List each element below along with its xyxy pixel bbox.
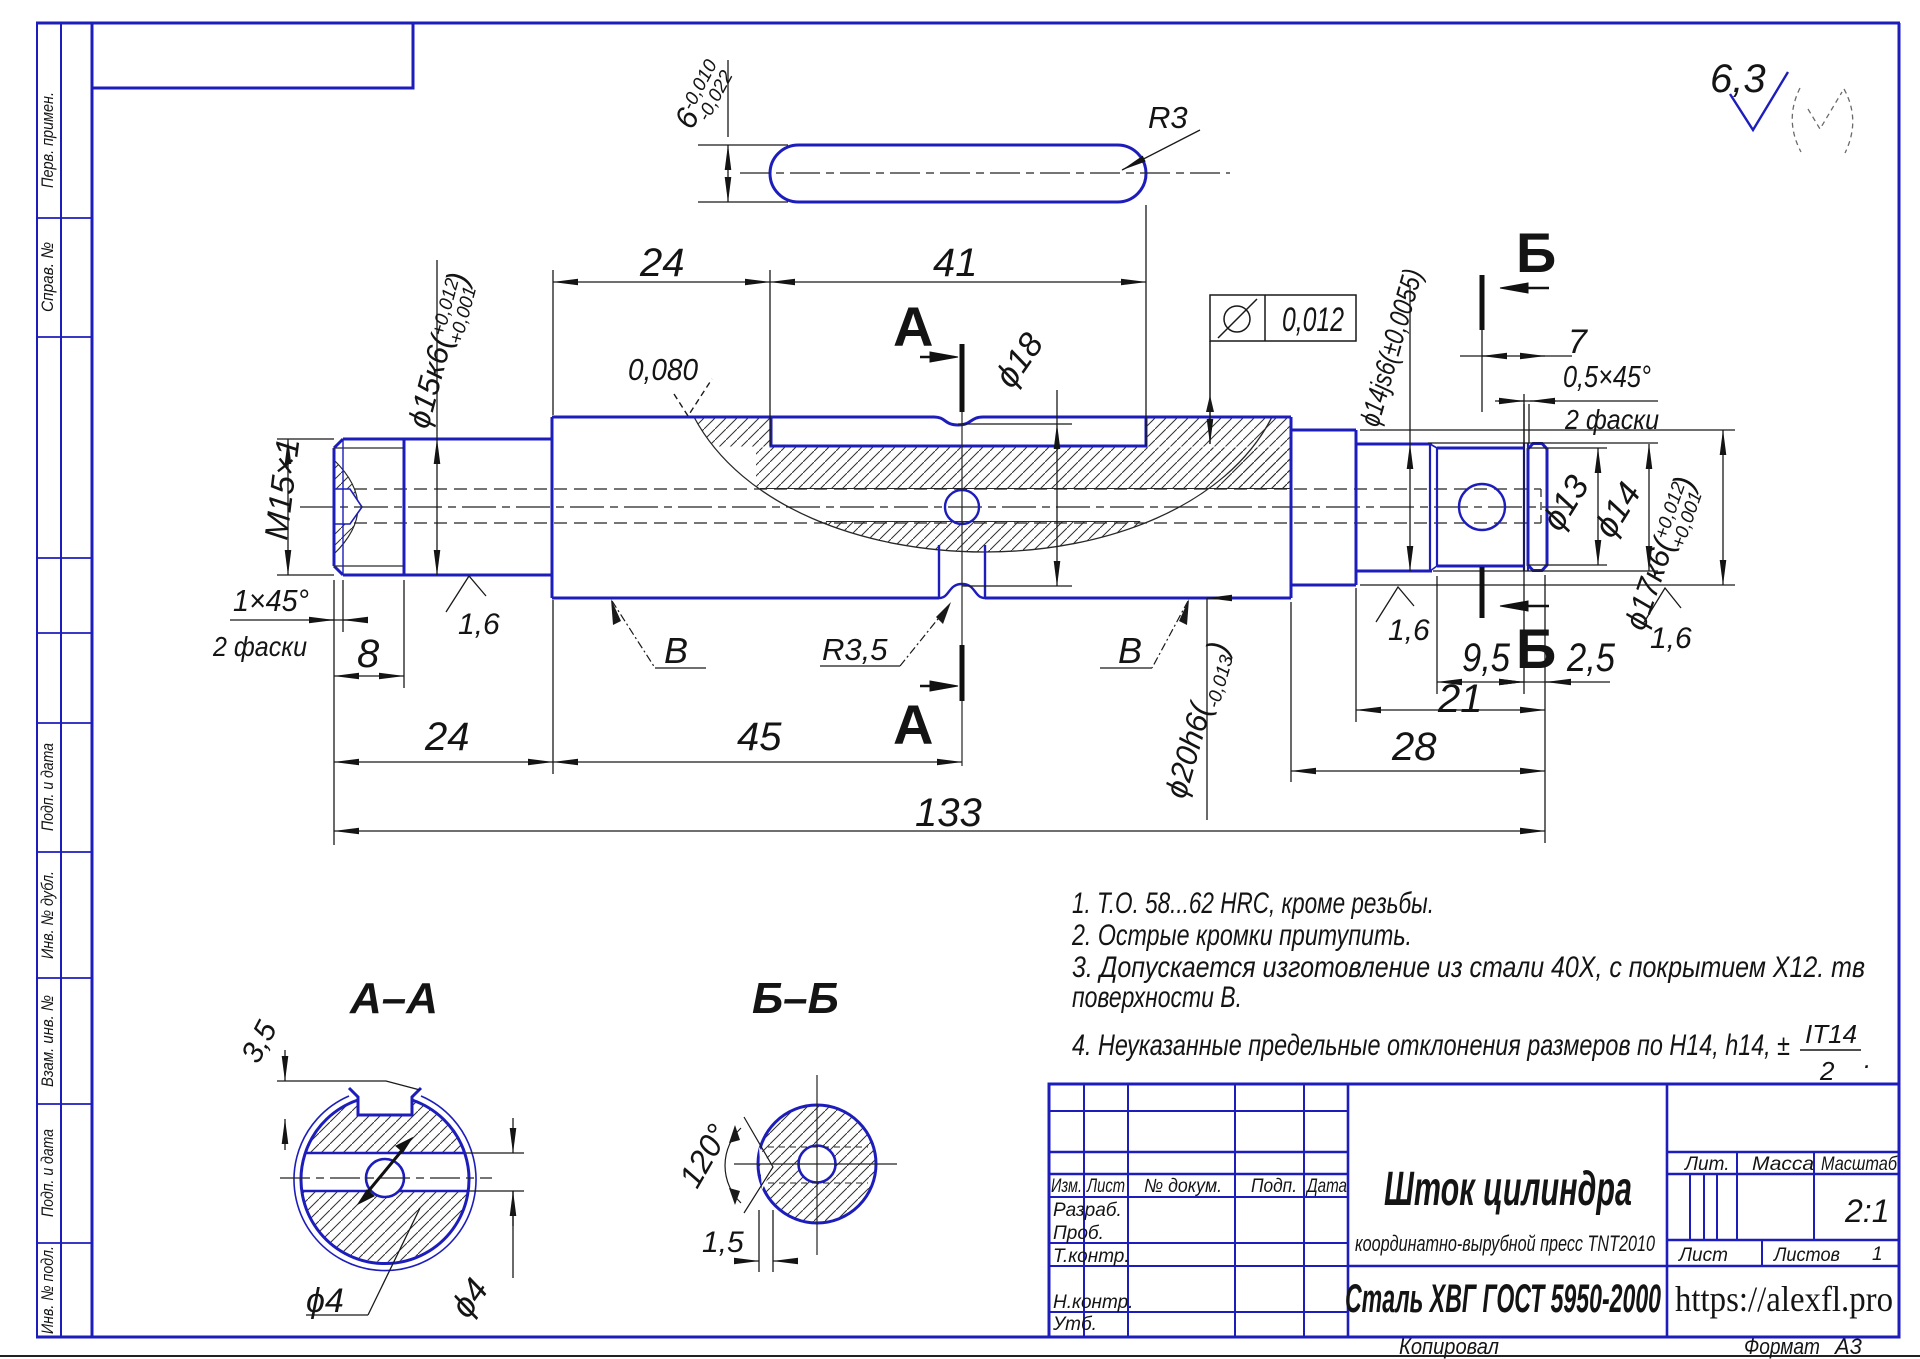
svg-text:24: 24 — [424, 715, 470, 759]
svg-text:2. Острые кромки притупить.: 2. Острые кромки притупить. — [1071, 919, 1412, 952]
svg-text:Дата: Дата — [1305, 1176, 1347, 1197]
svg-text:R3,5: R3,5 — [822, 632, 888, 667]
svg-text:Инв. № подл.: Инв. № подл. — [38, 1246, 57, 1334]
svg-text:8: 8 — [357, 632, 380, 676]
svg-text:Подп.: Подп. — [1251, 1176, 1297, 1197]
svg-text:24: 24 — [639, 241, 685, 285]
svg-text:Утб.: Утб. — [1052, 1314, 1097, 1335]
svg-text:4. Неуказанные предельные о: 4. Неуказанные предельные отклонения раз… — [1072, 1029, 1790, 1062]
svg-text:Разраб.: Разраб. — [1053, 1200, 1122, 1221]
svg-text:2: 2 — [1819, 1056, 1835, 1086]
svg-text:Проб.: Проб. — [1053, 1223, 1104, 1244]
svg-text:координатно-вырубной пресс TNT: координатно-вырубной пресс TNT2010 — [1355, 1231, 1656, 1256]
svg-text:Подп. и дата: Подп. и дата — [38, 743, 57, 831]
svg-text:Изм.: Изм. — [1051, 1176, 1082, 1197]
svg-text:Шток цилиндра: Шток цилиндра — [1384, 1163, 1632, 1216]
svg-text:№ докум.: № докум. — [1144, 1176, 1222, 1197]
svg-text:0,012: 0,012 — [1282, 301, 1344, 339]
svg-text:Б: Б — [1516, 617, 1556, 680]
svg-text:9,5: 9,5 — [1462, 636, 1511, 680]
svg-text:Масса: Масса — [1752, 1154, 1814, 1175]
svg-text:Сталь ХВГ ГОСТ 5950-2000: Сталь ХВГ ГОСТ 5950-2000 — [1345, 1277, 1661, 1321]
svg-text:41: 41 — [933, 241, 978, 285]
svg-text:ϕ4: ϕ4 — [306, 1282, 344, 1320]
svg-text:Н.контр.: Н.контр. — [1053, 1292, 1133, 1313]
svg-text:Лит.: Лит. — [1683, 1154, 1730, 1175]
svg-text:Копировал: Копировал — [1399, 1334, 1499, 1359]
svg-text:1,5: 1,5 — [702, 1226, 744, 1259]
svg-text:0,080: 0,080 — [628, 352, 698, 387]
svg-text:28: 28 — [1391, 725, 1437, 769]
svg-text:Масштаб: Масштаб — [1821, 1154, 1898, 1175]
svg-text:R3: R3 — [1148, 100, 1188, 135]
svg-text:1: 1 — [1872, 1244, 1883, 1265]
svg-text:2:1: 2:1 — [1844, 1193, 1889, 1229]
svg-text:А: А — [893, 693, 933, 756]
svg-text:Инв. № дубл.: Инв. № дубл. — [38, 871, 57, 959]
svg-text:Т.контр.: Т.контр. — [1053, 1246, 1130, 1267]
svg-text:2 фаски: 2 фаски — [1564, 404, 1659, 435]
svg-text:Перв. примен.: Перв. примен. — [38, 92, 57, 188]
svg-text:0,5×45°: 0,5×45° — [1563, 359, 1651, 394]
svg-text:Подп. и дата: Подп. и дата — [38, 1129, 57, 1217]
svg-text:Б–Б: Б–Б — [752, 974, 839, 1023]
svg-text:Лист: Лист — [1677, 1245, 1728, 1266]
svg-text:45: 45 — [737, 715, 782, 759]
svg-text:Справ. №: Справ. № — [38, 242, 57, 312]
svg-text:Листов: Листов — [1772, 1245, 1840, 1266]
svg-text:В: В — [664, 630, 688, 671]
svg-text:поверхности В.: поверхности В. — [1072, 981, 1242, 1014]
svg-text:Формат: Формат — [1744, 1334, 1820, 1359]
svg-text:Б: Б — [1516, 221, 1556, 284]
svg-text:Взам. инв. №: Взам. инв. № — [38, 995, 57, 1087]
svg-text:1,6: 1,6 — [1650, 622, 1692, 655]
svg-text:https://alexfl.pro: https://alexfl.pro — [1675, 1279, 1893, 1319]
svg-text:1. Т.О. 58...62 HRC, кроме р: 1. Т.О. 58...62 HRC, кроме резьбы. — [1072, 887, 1434, 920]
svg-text:7: 7 — [1568, 323, 1588, 361]
svg-text:А: А — [893, 295, 933, 358]
svg-text:3. Допускается изготовление: 3. Допускается изготовление из стали 40Х… — [1072, 951, 1865, 984]
svg-text:133: 133 — [915, 791, 982, 835]
svg-text:IT14: IT14 — [1805, 1019, 1857, 1049]
svg-text:А3: А3 — [1833, 1334, 1863, 1359]
svg-text:21: 21 — [1437, 677, 1483, 721]
svg-text:2,5: 2,5 — [1566, 636, 1616, 680]
svg-text:2 фаски: 2 фаски — [212, 631, 307, 662]
svg-text:Лист: Лист — [1085, 1176, 1125, 1197]
svg-text:1×45°: 1×45° — [233, 583, 309, 618]
svg-text:6,3: 6,3 — [1710, 57, 1766, 101]
svg-text:В: В — [1118, 630, 1142, 671]
svg-text:1,6: 1,6 — [1388, 614, 1430, 647]
svg-text:А–А: А–А — [349, 974, 438, 1023]
svg-text:1,6: 1,6 — [458, 608, 500, 641]
svg-text:.: . — [1864, 1044, 1871, 1074]
